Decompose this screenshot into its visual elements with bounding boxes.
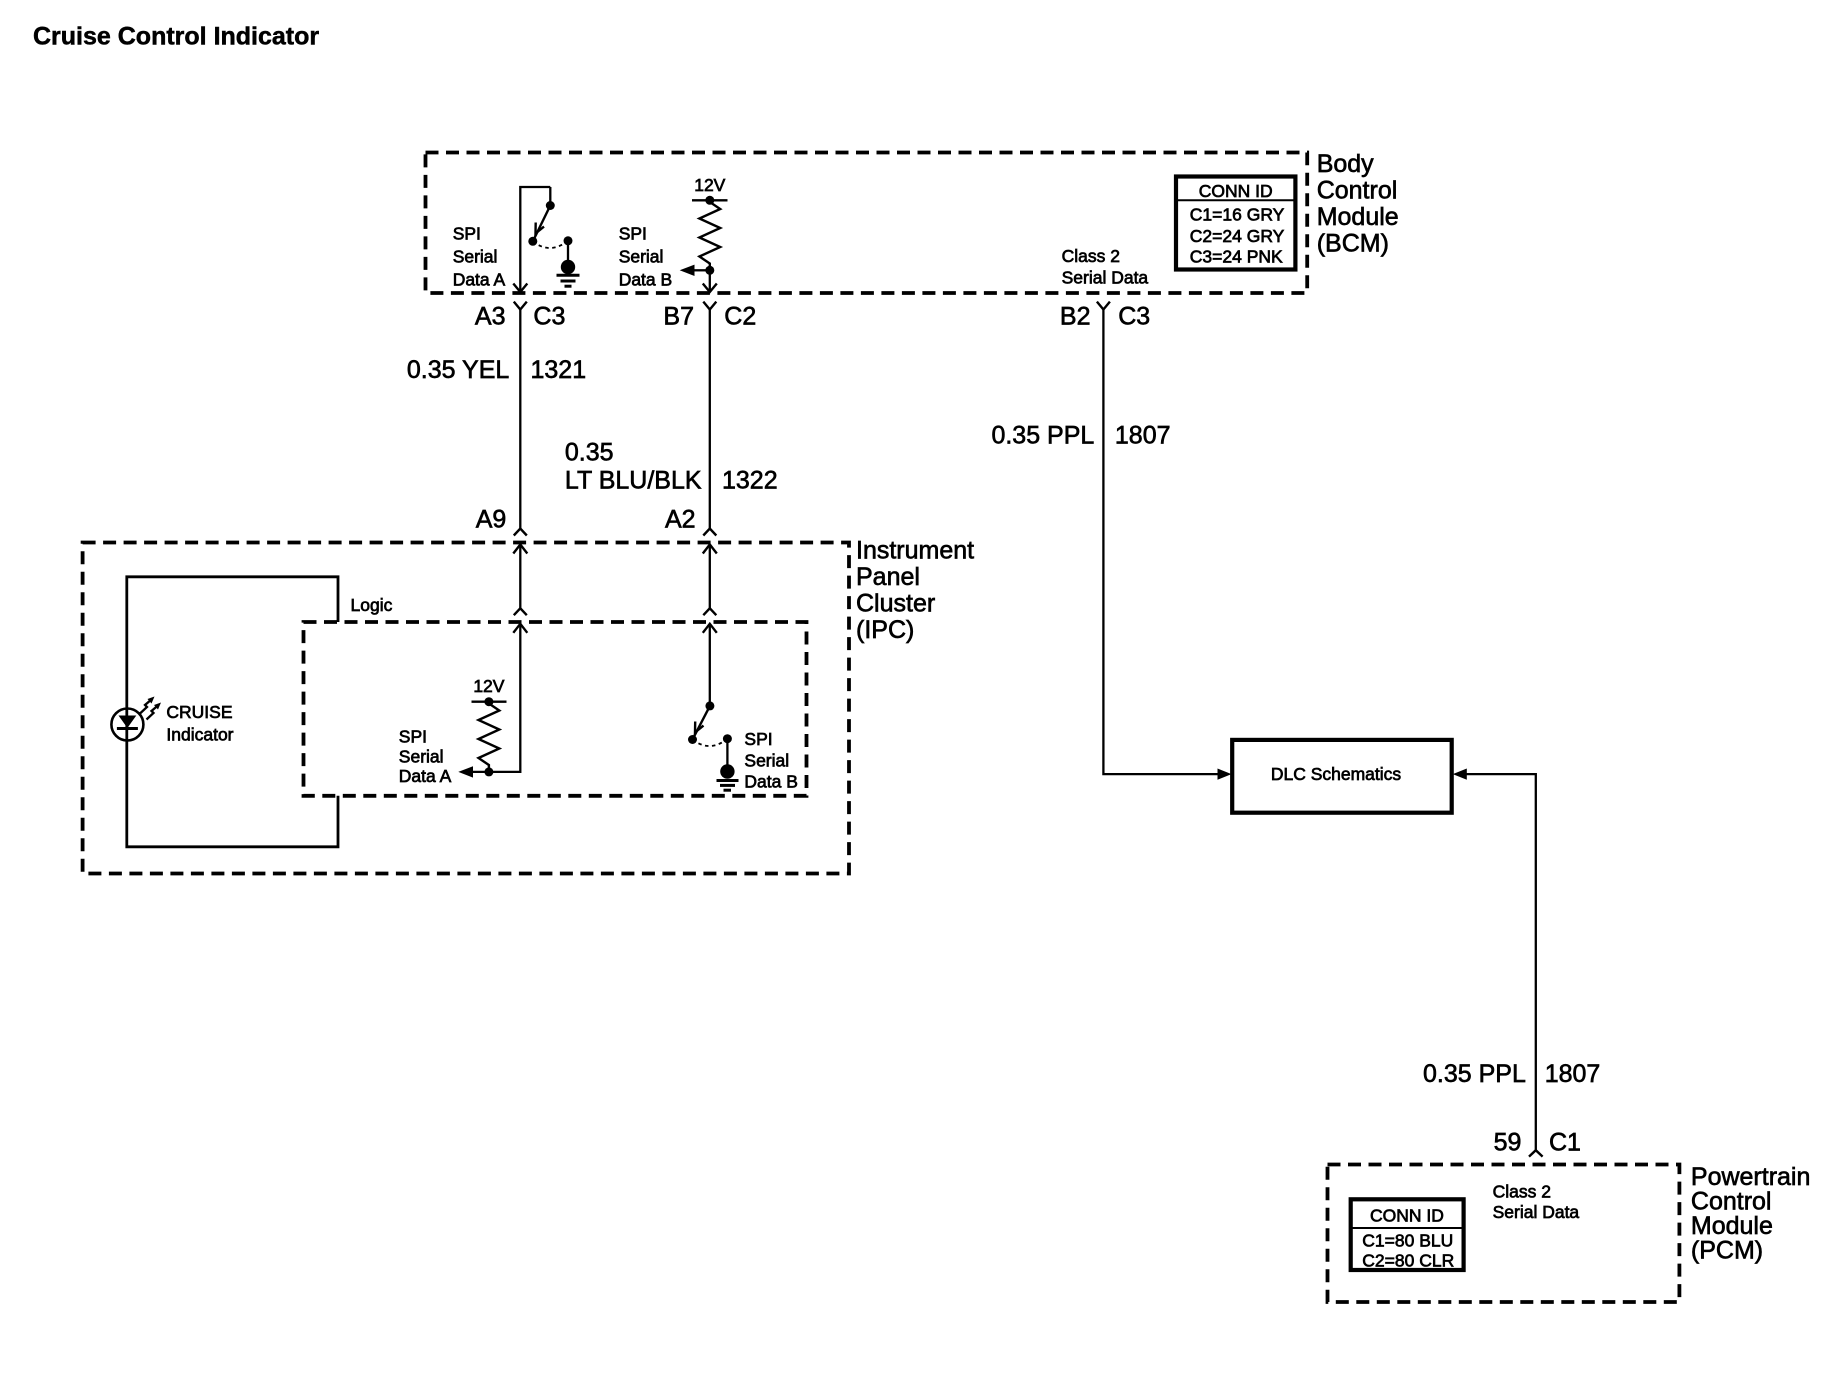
svg-text:C3: C3 [1118, 303, 1150, 331]
svg-text:0.35: 0.35 [565, 439, 614, 467]
svg-text:Data B: Data B [619, 269, 673, 289]
svg-text:A9: A9 [476, 506, 507, 534]
module name PCM [1691, 1163, 1811, 1265]
svg-text:C1=80 BLU: C1=80 BLU [1362, 1231, 1453, 1251]
svg-text:Serial: Serial [453, 247, 498, 267]
svg-text:C2: C2 [724, 303, 756, 331]
svg-text:LT BLU/BLK: LT BLU/BLK [565, 467, 702, 495]
wire W1 to resistor tap [470, 624, 520, 772]
svg-text:Serial: Serial [619, 247, 664, 267]
connector caret above IPC border (W1) [514, 529, 527, 536]
switch S1 (BCM SPI Serial Data A) [513, 187, 579, 292]
label SPI Serial Data B (IPC) [744, 729, 798, 791]
LED light arrows [140, 699, 152, 714]
svg-text:CRUISE: CRUISE [166, 702, 232, 722]
ground G2 (IPC) [720, 764, 734, 778]
svg-text:C3: C3 [533, 303, 565, 331]
svg-text:CONN ID: CONN ID [1199, 181, 1273, 201]
svg-text:0.35 YEL: 0.35 YEL [407, 356, 510, 384]
module box BCM (dashed) [426, 153, 1308, 294]
arrowhead at BCM border (wire A) [513, 284, 527, 293]
module box PCM (dashed) [1328, 1165, 1680, 1303]
svg-text:C3=24 PNK: C3=24 PNK [1190, 247, 1283, 267]
label Class 2 Serial Data (PCM) [1493, 1182, 1580, 1222]
node: S2 pivot dot [705, 701, 714, 710]
module name BCM [1317, 150, 1399, 258]
arrowhead at BCM border (wire B) [703, 284, 717, 293]
connector caret above IPC border (W2) [703, 529, 716, 536]
arrowhead (filled) pointing left to Data B [680, 265, 695, 276]
svg-text:SPI: SPI [744, 729, 772, 749]
svg-text:C1=16 GRY: C1=16 GRY [1190, 204, 1285, 224]
resistor R1 (BCM pull-up) [699, 200, 720, 270]
arrowhead (filled) pointing left to Data A label [458, 766, 473, 777]
svg-text:1322: 1322 [722, 467, 778, 495]
svg-text:SPI: SPI [399, 726, 427, 746]
module name IPC [856, 536, 974, 644]
connector table CONN ID (BCM) [1176, 177, 1295, 270]
connector Y (BCM A3/C3) [514, 302, 527, 310]
switch S2 (IPC SPI Serial Data B) [688, 701, 739, 790]
svg-text:DLC Schematics: DLC Schematics [1271, 764, 1402, 784]
svg-text:(BCM): (BCM) [1317, 230, 1389, 258]
svg-text:Data A: Data A [399, 766, 452, 786]
wire: S1 common down-lead [520, 187, 550, 292]
node: resistor top dot [705, 196, 714, 205]
svg-text:59: 59 [1494, 1129, 1522, 1157]
svg-text:Instrument: Instrument [856, 536, 974, 564]
svg-text:A2: A2 [665, 506, 696, 534]
12V supply rail (IPC) [472, 701, 507, 703]
wire: contact stem to ground [567, 241, 569, 262]
svg-text:Serial Data: Serial Data [1062, 267, 1149, 287]
inner dashed box (IPC serial data interface) [304, 622, 807, 796]
connector Y (BCM B7/C2) [703, 302, 716, 310]
wire: tap to Data B label [694, 269, 710, 271]
connector caret above inner box (W1) [514, 608, 527, 615]
svg-text:C2=80 CLR: C2=80 CLR [1362, 1251, 1454, 1271]
node: resistor bottom junction dot [705, 266, 714, 275]
arrowhead below IPC border (W2) [703, 545, 717, 554]
wire W4 horizontal + vertical [1466, 774, 1536, 1150]
connector caret above PCM border (W4) [1529, 1150, 1543, 1156]
connector Y (BCM B2/C3) [1097, 302, 1110, 310]
node: S1 pivot dot [546, 201, 555, 210]
wire: resistor to BCM border [709, 270, 711, 292]
logic block U1 (solid box) [127, 577, 393, 847]
svg-text:SPI: SPI [619, 224, 647, 244]
svg-text:SPI: SPI [453, 224, 481, 244]
connector caret above inner box (W2) [703, 608, 716, 615]
LED D1 CRUISE indicator [111, 697, 161, 741]
motion arc (dashed) S1 [533, 241, 568, 248]
wire W2 down to switch S2 [709, 624, 711, 706]
wire W2 inside IPC [709, 545, 711, 609]
svg-text:Data B: Data B [744, 771, 798, 791]
svg-text:C2=24 GRY: C2=24 GRY [1190, 226, 1285, 246]
label CRUISE Indicator [166, 702, 233, 744]
svg-text:12V: 12V [694, 175, 725, 195]
svg-text:Module: Module [1317, 203, 1399, 231]
arrowhead below inner box border (W1) [513, 624, 527, 633]
svg-text:Class 2: Class 2 [1062, 246, 1120, 266]
node: IPC resistor bottom junction dot [484, 767, 493, 776]
svg-text:Data A: Data A [453, 269, 506, 289]
wire W2 vertical [709, 310, 711, 529]
svg-text:1807: 1807 [1115, 422, 1171, 450]
wire W1 vertical [519, 310, 521, 529]
svg-text:1807: 1807 [1545, 1060, 1601, 1088]
node: S2 contact dot [723, 734, 732, 743]
node: S1 blade end dot [528, 237, 537, 246]
node: S2 blade end dot [688, 735, 697, 744]
wire: S2 contact stem to ground [726, 739, 728, 766]
svg-text:Cruise Control Indicator: Cruise Control Indicator [33, 23, 319, 51]
svg-text:0.35 PPL: 0.35 PPL [991, 422, 1094, 450]
svg-text:Body: Body [1317, 150, 1374, 178]
switch blade S2 [693, 706, 710, 739]
wire: S1 pivot stub [549, 187, 551, 206]
svg-text:B7: B7 [663, 303, 694, 331]
svg-text:C1: C1 [1549, 1129, 1581, 1157]
connector table CONN ID (PCM) [1351, 1199, 1464, 1270]
resistor R2 (IPC pull-up) [479, 702, 500, 772]
wire W1 inside IPC [519, 545, 521, 609]
svg-text:Cluster: Cluster [856, 589, 935, 617]
svg-text:Logic: Logic [351, 595, 393, 615]
svg-text:Control: Control [1317, 177, 1398, 205]
svg-text:CONN ID: CONN ID [1370, 1206, 1444, 1226]
label SPI Serial Data A (BCM) [453, 224, 506, 290]
arrowhead (filled) into DLC right side [1453, 769, 1467, 780]
svg-text:(PCM): (PCM) [1691, 1237, 1763, 1265]
svg-text:Serial: Serial [399, 747, 444, 767]
label Class 2 Serial Data (BCM) [1062, 246, 1149, 287]
svg-text:1321: 1321 [531, 356, 587, 384]
arrowhead below inner box border (W2) [703, 624, 717, 633]
svg-text:Panel: Panel [856, 563, 920, 591]
svg-text:B2: B2 [1060, 303, 1091, 331]
label SPI Serial Data B (BCM) [619, 224, 673, 290]
svg-text:Serial: Serial [744, 751, 789, 771]
12V supply rail (BCM) [692, 199, 728, 201]
node: S1 contact dot [564, 236, 573, 245]
switch blade S1 [533, 206, 550, 242]
arrowhead below IPC border (W1) [513, 545, 527, 554]
wire W3 vertical + horizontal [1103, 310, 1224, 775]
motion arc (dashed) S2 [693, 739, 728, 746]
svg-text:Class 2: Class 2 [1493, 1182, 1551, 1202]
label SPI Serial Data A (IPC) [399, 726, 452, 786]
arrowhead (filled) into DLC left side [1218, 769, 1232, 780]
module box IPC (dashed) [83, 543, 849, 874]
svg-text:A3: A3 [475, 303, 506, 331]
svg-text:(IPC): (IPC) [856, 616, 914, 644]
node: IPC resistor top dot [484, 697, 493, 706]
svg-text:Serial Data: Serial Data [1493, 1202, 1580, 1222]
svg-text:0.35 PPL: 0.35 PPL [1423, 1060, 1526, 1088]
svg-text:12V: 12V [473, 676, 504, 696]
svg-text:Indicator: Indicator [166, 724, 233, 744]
ground G1 (BCM) [561, 260, 575, 274]
